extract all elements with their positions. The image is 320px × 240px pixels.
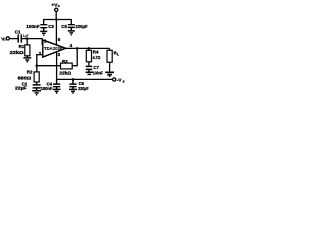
svg-text:100nF: 100nF [93, 70, 103, 75]
ground below C2 [32, 91, 41, 95]
resistor R2 [34, 72, 39, 82]
wire R4 to C7 [88, 62, 90, 66]
wire input node to R1 [26, 39, 28, 45]
wire R2 to C2 [36, 82, 38, 84]
junction output / R3 [76, 47, 79, 50]
ground below RL [105, 72, 114, 76]
wire pin 3 drop to -Vs rail [56, 52, 58, 80]
label 100nF (C7) [93, 70, 103, 75]
pin label 3 [58, 52, 61, 57]
ground below R1 [23, 56, 31, 62]
capacitor C3 [40, 25, 47, 31]
resistor R4 [86, 50, 91, 62]
terminal +Vs [55, 8, 58, 11]
svg-text:-V: -V [117, 78, 123, 84]
op-amp U1 TDA2030 [43, 40, 66, 57]
label Vi [1, 36, 5, 42]
svg-text:C1: C1 [15, 29, 21, 34]
capacitor C4 (on -Vs rail) [53, 79, 60, 89]
label 4.7Ohm (R4) [93, 55, 101, 60]
label 1uF (C1, faint) [23, 34, 29, 38]
svg-text:R4: R4 [93, 49, 99, 54]
label C1 [15, 29, 21, 34]
svg-text:22kΩ: 22kΩ [10, 50, 25, 55]
label C4 [47, 81, 53, 86]
svg-text:L: L [117, 53, 119, 57]
svg-text:R2: R2 [27, 70, 33, 75]
svg-text:680Ω: 680Ω [18, 75, 32, 80]
ground below C6 [69, 89, 77, 93]
svg-text:4.7Ω: 4.7Ω [93, 55, 101, 60]
pin label 4 [70, 43, 73, 48]
terminal -Vs [113, 78, 116, 81]
svg-text:R1: R1 [19, 44, 25, 49]
label C3 [48, 24, 54, 29]
ground below C3 [40, 31, 47, 35]
pin label 1 [44, 38, 47, 43]
label R2 [27, 70, 33, 75]
svg-text:s: s [123, 80, 125, 84]
wire RL to ground [109, 62, 111, 72]
svg-text:220µF: 220µF [78, 86, 89, 91]
svg-text:s: s [58, 4, 60, 8]
label R3 [62, 59, 68, 64]
junction output / R4 [88, 47, 91, 50]
wire feedback (pin2 node to R3) [37, 65, 61, 67]
label TDA2030 [44, 46, 63, 51]
label 680Ohm (R2) [18, 75, 32, 80]
svg-text:R3: R3 [62, 59, 68, 64]
label C2 [22, 81, 28, 86]
capacitor C1 [18, 34, 21, 42]
svg-text:22kΩ: 22kΩ [59, 70, 71, 75]
svg-text:TDA2030: TDA2030 [44, 46, 63, 51]
svg-text:C5: C5 [61, 24, 67, 29]
label 100nF (C4) [41, 86, 53, 91]
svg-text:220µF: 220µF [75, 24, 87, 29]
wire pin 2 [37, 55, 43, 72]
wire top supply rail [44, 20, 72, 25]
resistor R1 [25, 45, 30, 56]
resistor RL [107, 50, 112, 62]
pin label 5 [58, 37, 61, 42]
label 22uF (C2) [15, 85, 27, 90]
junction top rail / pin5 [55, 18, 58, 21]
resistor R3 [61, 63, 73, 69]
label C6 [79, 81, 85, 86]
wire -Vs rail [57, 78, 113, 80]
label +Vs [51, 3, 59, 9]
capacitor C2 [33, 85, 41, 90]
label RL [114, 51, 119, 57]
label C7 [93, 65, 99, 70]
svg-text:100nF: 100nF [41, 86, 53, 91]
capacitor C6 (on -Vs rail) [69, 79, 76, 89]
wire output [66, 47, 110, 49]
label 220uF (C6) [78, 86, 89, 91]
ground below C7 [86, 72, 93, 74]
wire Vi to C1 [9, 38, 17, 40]
svg-text:C3: C3 [48, 24, 54, 29]
terminal Vi [6, 37, 9, 40]
svg-text:i: i [4, 38, 5, 42]
wire C1 to op-amp pin 1 [21, 39, 43, 45]
wire +Vs terminal to top rail [55, 11, 57, 19]
wire R3 to output vertical [72, 48, 77, 65]
svg-text:100nF: 100nF [26, 24, 40, 29]
label 220uF (C5) [75, 24, 87, 29]
ground below C4 [53, 89, 61, 93]
label -Vs [117, 78, 125, 84]
svg-text:22µF: 22µF [15, 85, 27, 90]
label R4 [93, 49, 99, 54]
label 22kOhm (R1) [10, 50, 25, 55]
label R1 [19, 44, 25, 49]
label 22kOhm (R3) [59, 70, 71, 75]
capacitor C7 [86, 66, 93, 72]
wire output to RL [109, 48, 111, 50]
junction input node [26, 37, 29, 40]
pin label 2 [39, 51, 42, 56]
wire output to R4 [88, 48, 90, 50]
wire pin 5 riser [55, 20, 57, 46]
label 100nF (C3) [26, 24, 40, 29]
junction feedback node [36, 64, 39, 67]
ground below C5 [68, 31, 75, 35]
junction -Vs rail / C6 [72, 78, 75, 81]
capacitor C5 [68, 25, 75, 31]
label C5 [61, 24, 67, 29]
